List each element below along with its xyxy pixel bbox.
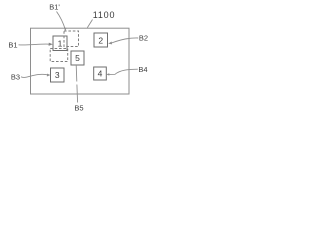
box 4 xyxy=(94,67,107,80)
svg-text:B3: B3 xyxy=(11,72,20,81)
leader line 1100 xyxy=(87,20,92,28)
leader line B2 xyxy=(112,38,139,43)
arrowhead B2 xyxy=(108,42,112,45)
arrowhead B1 xyxy=(49,43,53,46)
leader line B4 xyxy=(108,69,138,74)
box 3 xyxy=(51,68,65,82)
leader line B1' xyxy=(57,12,66,30)
box 5 xyxy=(71,51,84,65)
svg-text:3: 3 xyxy=(55,70,60,80)
svg-text:4: 4 xyxy=(98,69,103,79)
leader line B1 xyxy=(19,43,50,46)
svg-text:2: 2 xyxy=(98,35,103,45)
svg-text:B1: B1 xyxy=(8,41,17,50)
svg-text:1100: 1100 xyxy=(93,10,116,20)
svg-text:1: 1 xyxy=(58,38,63,48)
svg-text:5: 5 xyxy=(75,53,80,63)
svg-text:B1': B1' xyxy=(49,2,60,11)
arrowhead B4 xyxy=(106,73,109,75)
svg-text:B2: B2 xyxy=(139,34,148,43)
svg-text:B4: B4 xyxy=(138,65,147,74)
leader line B5 (from box 5 down through enclosure edge, with gap) xyxy=(76,65,77,103)
dashed box B1' (upper right of box 1) xyxy=(64,31,79,47)
dashed box (lower left of box 1) xyxy=(50,49,67,62)
arrowhead B3 xyxy=(47,74,51,77)
box 2 xyxy=(94,33,108,47)
svg-text:B5: B5 xyxy=(74,104,83,113)
arrowhead B1' xyxy=(64,28,67,32)
leader line B3 xyxy=(21,74,48,77)
enclosure box 1100 xyxy=(31,28,130,94)
background xyxy=(0,0,159,120)
box 1 xyxy=(53,36,67,51)
